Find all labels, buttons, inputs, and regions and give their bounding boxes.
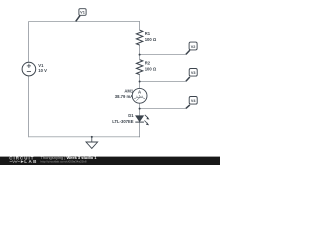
junction node V3 dot — [139, 81, 141, 83]
svg-text:LTL-307EE: LTL-307EE — [112, 119, 134, 124]
wire right vertical segment 2 (R1 to R2 through node V2) — [139, 45, 141, 60]
wire right vertical segment 3 (R2 to ammeter through node V3) — [139, 74, 141, 88]
resistor R2 — [136, 60, 142, 75]
node V1 flag — [76, 9, 86, 22]
LED D1 — [135, 115, 149, 125]
svg-text:V3: V3 — [191, 71, 196, 75]
wire right vertical segment 4 (ammeter to LED through node V4) — [139, 103, 141, 116]
wire node V4 branch — [140, 108, 187, 110]
junction node V2 dot — [139, 54, 141, 56]
junction ground dot — [91, 136, 93, 138]
svg-text:A: A — [138, 90, 141, 95]
wire right vertical segment 5 (LED to bottom) — [139, 122, 141, 137]
svg-text:V1: V1 — [80, 11, 85, 15]
svg-text:100 Ω: 100 Ω — [145, 37, 157, 42]
ground — [86, 137, 98, 149]
resistor R1 — [136, 30, 142, 45]
svg-text:D1: D1 — [128, 113, 134, 118]
footer bar — [0, 157, 220, 165]
svg-text:http://circuitlab.com/c/059a34: http://circuitlab.com/c/059a34a25b8 — [41, 160, 87, 164]
svg-text:AM1: AM1 — [124, 88, 134, 93]
node V3 flag — [186, 69, 197, 82]
wire left vertical lower — [28, 76, 30, 137]
footer CircuitLab logo — [9, 156, 37, 165]
svg-text:V2: V2 — [191, 45, 196, 49]
svg-text:38.79 mA: 38.79 mA — [115, 94, 133, 99]
voltage source V1 — [22, 62, 36, 76]
svg-text:10 V: 10 V — [38, 68, 47, 73]
node V2 flag — [186, 42, 197, 54]
junction node V4 dot — [139, 108, 141, 110]
wire left vertical upper — [28, 21, 30, 62]
wire top horizontal — [29, 21, 140, 23]
wire node V2 branch — [140, 54, 187, 56]
svg-text:R2: R2 — [145, 61, 151, 66]
svg-text:LAB: LAB — [24, 159, 37, 164]
wire right vertical segment 1 (top to R1) — [139, 21, 141, 30]
wire bottom horizontal — [29, 136, 140, 138]
svg-text:100 Ω: 100 Ω — [145, 67, 157, 72]
ammeter AM1 — [132, 88, 147, 103]
wire node V3 branch — [140, 81, 187, 83]
node V4 flag — [186, 97, 197, 109]
svg-text:R1: R1 — [145, 31, 151, 36]
